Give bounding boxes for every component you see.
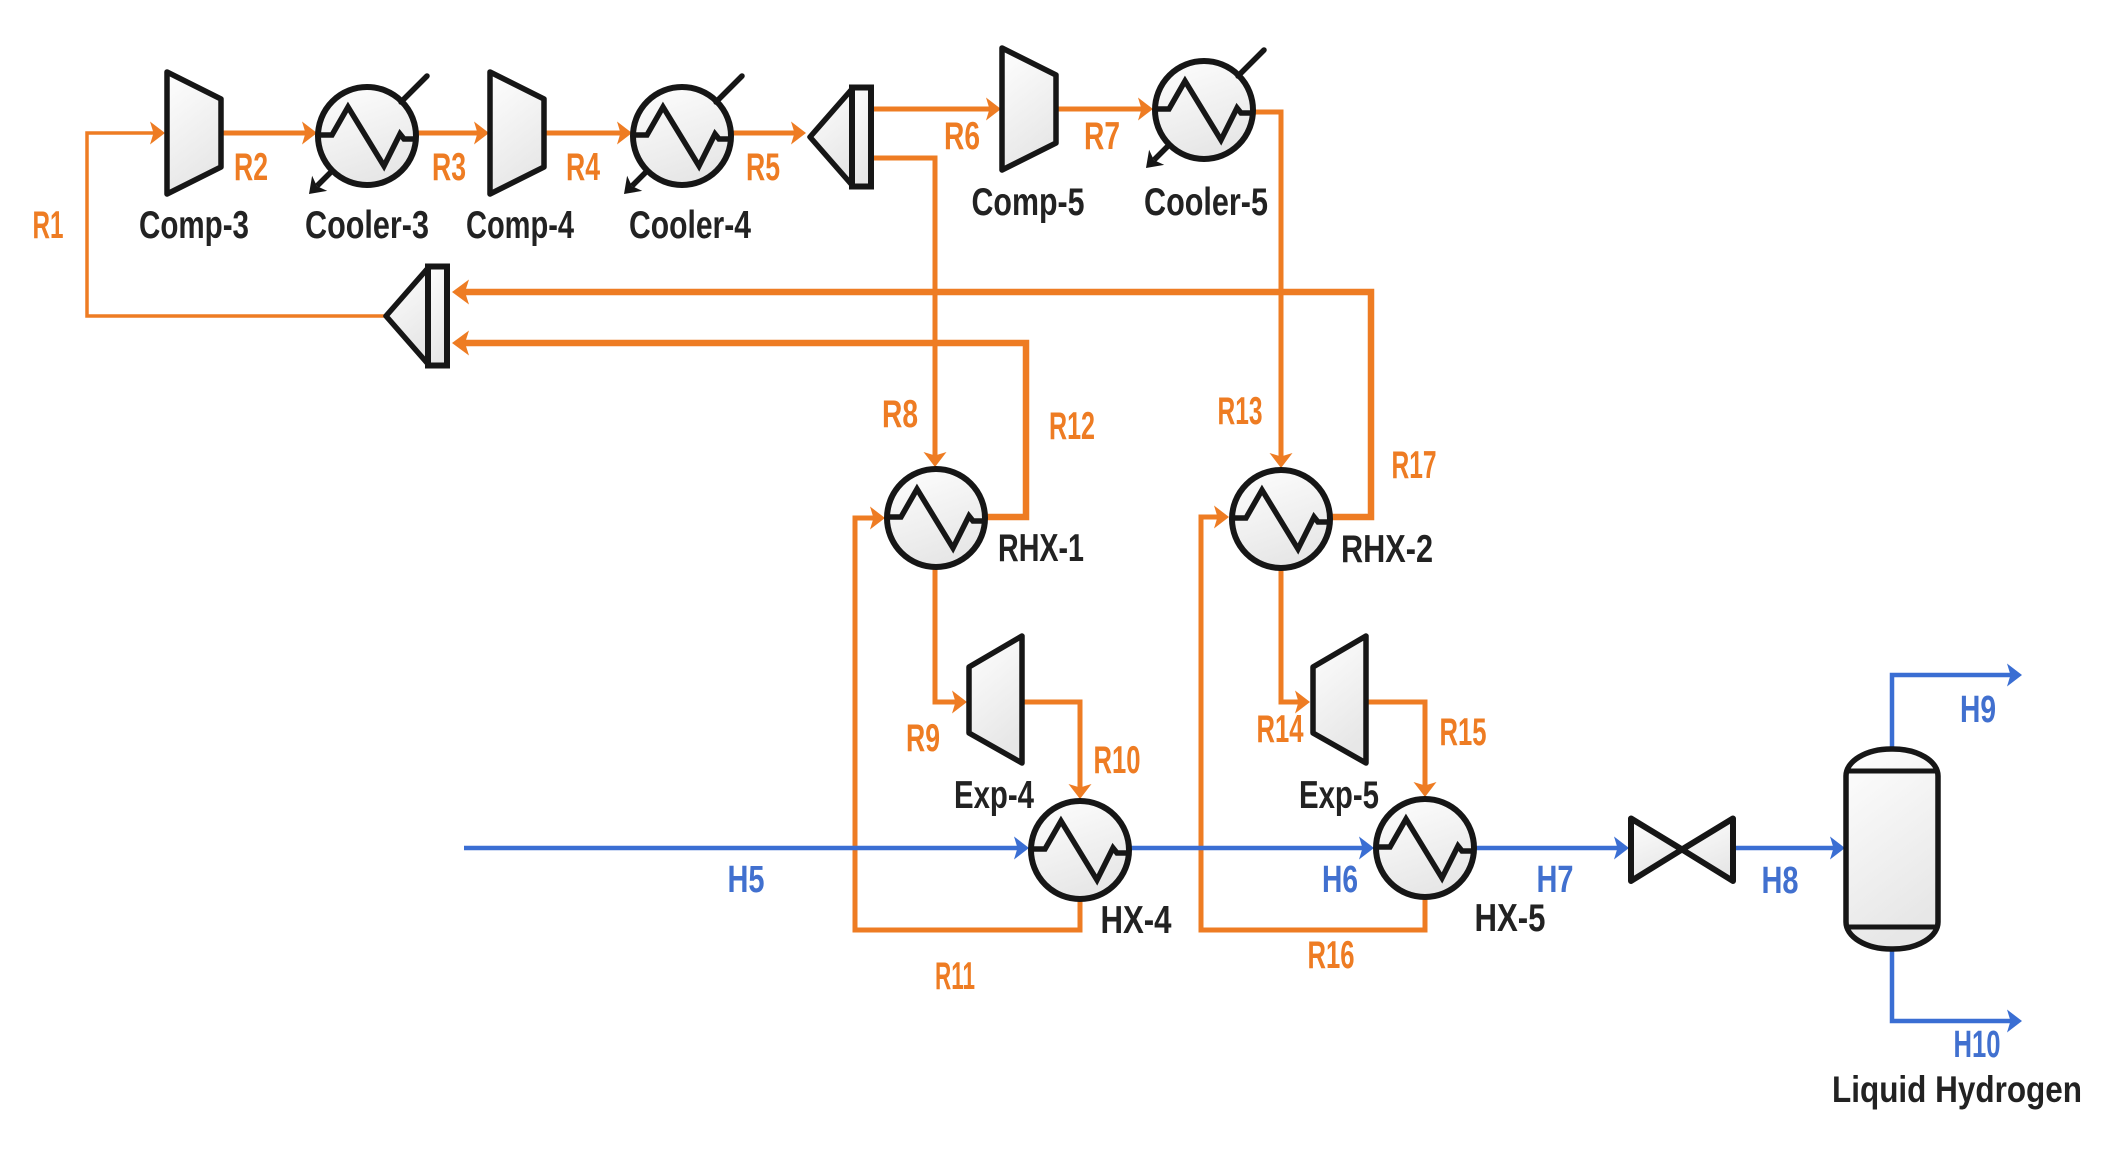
compressor Comp-5 bbox=[1002, 48, 1056, 170]
wire H7: HX-5 -> valve bbox=[1475, 846, 1624, 851]
valve bbox=[1631, 819, 1733, 882]
svg-text:R6: R6 bbox=[944, 115, 980, 158]
arrow R12 into mixer bottom inlet bbox=[452, 331, 469, 356]
arrow R9 into Exp-4 bbox=[952, 691, 967, 714]
svg-text:Cooler-5: Cooler-5 bbox=[1144, 181, 1268, 224]
arrow R10 into HX-4 top bbox=[1069, 784, 1092, 799]
wire R6: splitter top outlet -> Comp-5 bbox=[874, 107, 997, 112]
expander Exp-4 bbox=[969, 636, 1022, 763]
arrow R2 into Cooler-3 bbox=[302, 122, 317, 145]
svg-text:H7: H7 bbox=[1537, 859, 1574, 901]
cooler Cooler-5 bbox=[1146, 50, 1264, 168]
arrow H7 into valve bbox=[1614, 837, 1629, 860]
wire R10: Exp-4 outlet -> right -> down -> HX-4 top bbox=[1021, 702, 1080, 795]
wire R3: Cooler-3 -> Comp-4 bbox=[417, 131, 485, 136]
svg-text:R4: R4 bbox=[566, 146, 600, 189]
wire R1: mixer outlet -> left -> up -> Comp-3 inlet bbox=[87, 133, 386, 316]
mixer tee bbox=[386, 267, 447, 366]
arrow R5 into splitter bbox=[791, 122, 806, 145]
wire R15: Exp-5 outlet -> right -> down -> HX-5 top bbox=[1368, 702, 1425, 793]
svg-text:HX-5: HX-5 bbox=[1475, 897, 1546, 940]
arrow R11 into RHX-1 left bbox=[870, 507, 885, 530]
svg-text:H10: H10 bbox=[1954, 1024, 2001, 1066]
arrow R16 into RHX-2 left bbox=[1214, 506, 1229, 529]
wire R9: RHX-1 bottom -> down -> Exp-4 inlet bbox=[935, 568, 962, 702]
svg-text:H6: H6 bbox=[1322, 859, 1358, 901]
svg-text:R7: R7 bbox=[1084, 115, 1120, 158]
svg-text:R13: R13 bbox=[1218, 390, 1263, 433]
wire H8: valve -> separator bbox=[1733, 846, 1839, 851]
arrow R6 into Comp-5 bbox=[986, 98, 1001, 121]
wire H5: feed -> HX-4 bbox=[464, 846, 1024, 851]
arrow H5 into HX-4 bbox=[1014, 837, 1029, 860]
svg-text:R3: R3 bbox=[432, 146, 466, 189]
wire H10: separator bottom -> down -> right bbox=[1892, 949, 2012, 1021]
separator vessel bbox=[1846, 749, 1938, 949]
svg-text:Comp-5: Comp-5 bbox=[972, 181, 1085, 224]
compressor Comp-4 bbox=[490, 72, 544, 194]
svg-text:RHX-1: RHX-1 bbox=[998, 527, 1084, 570]
arrow R4 into Cooler-4 bbox=[617, 122, 632, 145]
svg-text:Comp-3: Comp-3 bbox=[139, 204, 249, 247]
svg-text:R16: R16 bbox=[1308, 934, 1355, 977]
expander Exp-5 bbox=[1313, 636, 1366, 763]
wire R11: HX-4 bottom -> down -> left -> up -> RHX-1 left inlet bbox=[855, 518, 1080, 930]
svg-text:Exp-5: Exp-5 bbox=[1299, 774, 1379, 817]
svg-text:R8: R8 bbox=[882, 393, 918, 436]
svg-text:Liquid Hydrogen: Liquid Hydrogen bbox=[1832, 1069, 2082, 1110]
svg-text:RHX-2: RHX-2 bbox=[1341, 528, 1433, 571]
svg-text:R9: R9 bbox=[906, 717, 940, 760]
arrow H10 end bbox=[2007, 1010, 2022, 1033]
arrow R8 into RHX-1 top bbox=[924, 452, 947, 467]
wire R14: RHX-2 bottom -> down -> Exp-5 inlet bbox=[1281, 570, 1306, 702]
svg-text:H8: H8 bbox=[1762, 860, 1799, 902]
svg-text:Cooler-3: Cooler-3 bbox=[305, 204, 429, 247]
svg-text:Cooler-4: Cooler-4 bbox=[629, 204, 751, 247]
arrow R13 into RHX-2 top bbox=[1270, 453, 1293, 468]
svg-text:R1: R1 bbox=[33, 204, 64, 247]
svg-text:HX-4: HX-4 bbox=[1101, 899, 1172, 942]
svg-text:R14: R14 bbox=[1257, 708, 1304, 751]
heat exchanger RHX-2 bbox=[1232, 470, 1330, 568]
heat exchanger HX-4 bbox=[1031, 801, 1129, 899]
wire R12 return: RHX-1 right -> up -> left to mixer (thick) bbox=[460, 343, 1026, 517]
wire R4: Comp-4 -> Cooler-4 bbox=[544, 131, 627, 136]
svg-text:R12: R12 bbox=[1049, 405, 1095, 448]
arrow H9 end bbox=[2007, 664, 2022, 687]
wire R13: Cooler-5 -> right -> down -> RHX-2 top bbox=[1254, 112, 1281, 463]
arrow R17 into mixer top inlet bbox=[452, 280, 469, 305]
arrow R1 into Comp-3 bbox=[150, 122, 165, 145]
svg-text:R11: R11 bbox=[935, 955, 975, 998]
arrow R7 into Cooler-5 bbox=[1138, 98, 1153, 121]
arrow R14 into Exp-5 bbox=[1295, 691, 1310, 714]
wire R7: Comp-5 -> Cooler-5 bbox=[1056, 107, 1147, 112]
arrow R15 into HX-5 top bbox=[1414, 782, 1437, 797]
heat exchanger HX-5 bbox=[1376, 799, 1474, 897]
wire R16: HX-5 bottom -> down -> left -> up -> RHX-2 left inlet bbox=[1201, 517, 1425, 930]
svg-text:R15: R15 bbox=[1440, 711, 1487, 754]
wire R8: splitter bottom outlet -> down -> RHX-1 top bbox=[874, 158, 935, 462]
svg-text:H9: H9 bbox=[1960, 689, 1996, 731]
wire R5: Cooler-4 -> splitter bbox=[732, 131, 801, 136]
svg-text:R17: R17 bbox=[1392, 444, 1437, 487]
heat exchanger RHX-1 bbox=[887, 469, 985, 567]
wire R17 return: RHX-2 right -> up -> left to mixer (thick) bbox=[460, 292, 1371, 517]
wire R2: Comp-3 -> Cooler-3 bbox=[221, 131, 312, 136]
arrow H8 into separator bbox=[1830, 837, 1845, 860]
svg-text:R10: R10 bbox=[1094, 739, 1141, 782]
svg-text:R2: R2 bbox=[234, 146, 268, 189]
svg-text:Exp-4: Exp-4 bbox=[954, 774, 1034, 817]
svg-text:Comp-4: Comp-4 bbox=[466, 204, 574, 247]
cooler Cooler-4 bbox=[624, 76, 742, 194]
cooler Cooler-3 bbox=[309, 76, 427, 194]
arrow H6 into HX-5 bbox=[1359, 837, 1374, 860]
compressor Comp-3 bbox=[167, 72, 221, 194]
wire H6: HX-4 -> HX-5 bbox=[1130, 846, 1368, 851]
arrow R3 into Comp-4 bbox=[474, 122, 489, 145]
svg-text:R5: R5 bbox=[746, 146, 780, 189]
svg-text:H5: H5 bbox=[728, 859, 765, 901]
splitter tee bbox=[810, 88, 871, 187]
wire H9: separator top -> up -> right bbox=[1892, 675, 2012, 749]
